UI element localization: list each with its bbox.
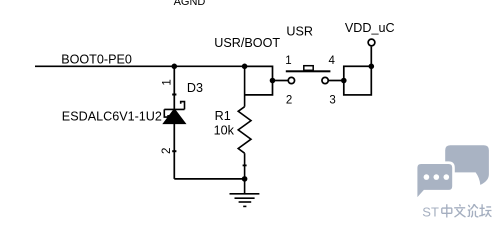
- wire BOOT0-PE0 main horizontal: [35, 65, 273, 67]
- node junction at ground: [242, 176, 248, 182]
- svg-text:2: 2: [286, 94, 292, 106]
- wire diode branch vertical: [173, 66, 175, 179]
- watermark text CJK 中文论坛 (drawn strokes): [442, 204, 492, 217]
- diode D3 pin 2 end nub: [172, 150, 176, 152]
- svg-text:ESDALC6V1-1U2: ESDALC6V1-1U2: [62, 109, 162, 123]
- svg-text:1: 1: [162, 79, 174, 85]
- power symbol VDD_uC circle: [368, 39, 375, 46]
- glyph 论: [468, 204, 479, 217]
- svg-text:USR: USR: [286, 24, 313, 38]
- svg-text:2: 2: [161, 148, 173, 154]
- svg-text:10k: 10k: [214, 124, 235, 138]
- glyph 坛: [479, 204, 491, 216]
- svg-text:D3: D3: [187, 81, 203, 95]
- power symbol VDD_uC stem: [370, 47, 372, 67]
- node junction VDD: [369, 64, 375, 70]
- wire loop VDD to switch pin 3: [344, 66, 372, 95]
- svg-text:BOOT0-PE0: BOOT0-PE0: [61, 53, 132, 67]
- node junction switch pin 2: [270, 78, 276, 84]
- svg-text:USR/BOOT: USR/BOOT: [214, 36, 280, 50]
- switch USR contact circle pin 3: [322, 77, 328, 83]
- watermark logo: back speech bubble: [445, 145, 489, 185]
- wire loop from resistor branch to switch pin 2: [245, 66, 273, 95]
- wire to switch pin 2 contact: [273, 80, 289, 82]
- svg-text:AGND: AGND: [174, 0, 206, 8]
- wire bottom horizontal to ground node: [174, 178, 244, 180]
- wire switch pin 3 to VDD loop: [328, 80, 344, 82]
- switch USR contact circle pin 2: [288, 77, 294, 83]
- node junction switch pin 3: [341, 78, 347, 84]
- svg-text:1: 1: [285, 55, 291, 67]
- node junction resistor branch: [242, 64, 248, 70]
- resistor R1 pin end nub: [243, 165, 247, 167]
- diode D3 pin 1 end nub: [172, 94, 176, 96]
- switch USR plunger: [304, 66, 313, 71]
- svg-text:3: 3: [329, 94, 335, 106]
- svg-text:VDD_uC: VDD_uC: [345, 21, 395, 35]
- glyph 文: [454, 204, 465, 217]
- svg-text:R1: R1: [215, 109, 231, 123]
- switch USR actuator bar: [286, 70, 331, 72]
- watermark logo: front speech bubble with dots: [416, 163, 453, 201]
- resistor R1: [238, 66, 251, 179]
- svg-text:4: 4: [329, 55, 336, 67]
- node junction diode branch: [172, 64, 178, 70]
- ground: [230, 179, 260, 207]
- glyph 中: [442, 204, 452, 217]
- svg-text:ST: ST: [422, 204, 439, 219]
- diode D3 (ESD protection, zener-style cathode): [164, 102, 185, 124]
